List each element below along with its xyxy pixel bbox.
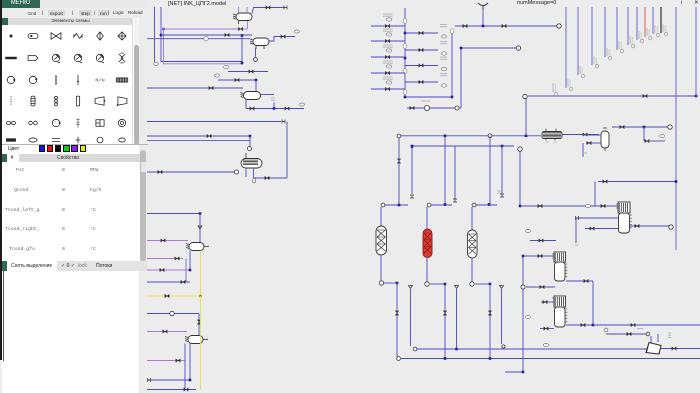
label riser 8 xyxy=(655,25,659,37)
wire drop x456 xyxy=(456,289,458,349)
label riser 0 xyxy=(568,79,572,91)
wire drop x455 xyxy=(454,146,456,199)
label e5a xyxy=(271,98,275,100)
valve V45 xyxy=(631,323,635,327)
node j25 xyxy=(444,283,447,286)
valve VL4 xyxy=(385,87,389,91)
wire blue drops B xyxy=(184,344,186,391)
wire drop x186 xyxy=(185,259,187,283)
valve VL1 xyxy=(385,39,389,43)
wire header y325 xyxy=(593,324,700,326)
wire exch3 stub y329 xyxy=(540,328,554,330)
node j11 xyxy=(451,96,454,99)
drum A xyxy=(186,243,204,251)
valve V23 xyxy=(463,24,467,28)
drum D2 xyxy=(250,38,269,46)
label glyph L0 xyxy=(386,18,392,21)
wire column3 feed xyxy=(476,204,497,206)
valve V37 xyxy=(635,224,639,228)
wire exch2 feed y256 xyxy=(523,255,554,257)
valve V48 xyxy=(603,180,607,184)
wire pump line y108 xyxy=(407,107,461,109)
riser pipe 9 xyxy=(660,7,662,33)
wire vertical x154.5 xyxy=(154,7,156,62)
valve V30 xyxy=(397,159,401,163)
label ladder2 R0 xyxy=(440,25,447,27)
label e15b xyxy=(668,333,671,337)
wire HX1 left line y172 xyxy=(147,171,236,173)
terminal t23 xyxy=(413,347,417,351)
drum D1 xyxy=(233,13,252,21)
wire feed y314 xyxy=(147,313,199,315)
node j1 xyxy=(160,34,163,37)
riser pipe 11 xyxy=(695,7,697,96)
wire drum D1 bottom stub xyxy=(238,21,240,25)
wire drop x593 xyxy=(592,281,594,325)
wire ladder bottom tie xyxy=(405,96,452,98)
valve V22 xyxy=(410,106,414,110)
wire drop x502 xyxy=(501,146,503,194)
column C2 (selected, red) xyxy=(423,229,432,258)
wire column1 bottoms tie xyxy=(384,282,397,284)
valve V29 xyxy=(645,139,649,143)
wire drop to drum A xyxy=(199,214,201,243)
riser pipe 4 xyxy=(616,7,618,50)
wire drop x397 xyxy=(396,283,398,357)
node j19 xyxy=(501,145,504,148)
exchanger HXA xyxy=(616,202,632,233)
valve VR1 xyxy=(419,48,423,52)
wire purple y361 xyxy=(147,360,185,362)
valve V2 xyxy=(225,33,229,37)
wire feed y214 xyxy=(147,213,200,215)
node j31 xyxy=(592,324,595,327)
wire column3 bottoms tie xyxy=(475,283,490,285)
node ladder1 junction xyxy=(404,32,407,35)
wire blue y380 xyxy=(147,379,190,381)
valve V20 xyxy=(176,359,180,363)
node j29 xyxy=(519,205,522,208)
port ellipse L2 top xyxy=(450,29,454,34)
label e15 xyxy=(637,328,643,330)
wire vessel outlet y127 xyxy=(612,126,668,128)
valve V16 xyxy=(181,280,185,284)
node j10 xyxy=(189,379,192,382)
valve V42 xyxy=(543,300,547,304)
valve V41 xyxy=(584,279,588,283)
wire HXA outlet y226 xyxy=(630,225,669,227)
valve V1 xyxy=(238,27,242,31)
wire purple riser x163.5 with corner y63.8 xyxy=(164,29,243,64)
wire drop x410b xyxy=(410,289,412,346)
bus ladder2 xyxy=(451,33,453,97)
wire bottoms header y358 xyxy=(401,358,700,360)
wire ladder1 left stub 0 xyxy=(371,25,405,27)
label e11 xyxy=(575,244,578,246)
terminal t22 xyxy=(470,282,474,286)
terminal t9 xyxy=(523,94,527,98)
vent B2 xyxy=(455,286,459,289)
valve V9 xyxy=(285,107,289,111)
column C1 xyxy=(376,226,387,255)
wire HXB outlet y281 xyxy=(566,280,593,282)
label ladder2 R2 xyxy=(440,57,447,59)
wire column1 feed xyxy=(385,204,408,206)
wire pump riser xyxy=(255,48,257,57)
wire drop x256 to drum D3 xyxy=(255,80,257,91)
wire header y135 xyxy=(399,135,541,137)
vent marker A xyxy=(198,226,202,229)
wire drop x445b xyxy=(444,284,446,358)
label glyph R2 xyxy=(441,67,446,70)
riser pipe 7 xyxy=(644,7,646,37)
wire column2 bottoms tie xyxy=(430,283,445,285)
label e2 xyxy=(295,30,300,33)
terminal t29 xyxy=(502,345,505,348)
node j2b xyxy=(241,34,244,37)
node j3 xyxy=(241,62,244,65)
label e7 xyxy=(660,135,665,138)
valve V28 xyxy=(620,125,624,129)
label riser 4 xyxy=(619,41,623,53)
wire drop x490b xyxy=(489,284,491,358)
terminal t16 xyxy=(500,194,504,197)
node j2 xyxy=(162,28,165,31)
wire header y35 xyxy=(161,34,252,36)
heat exchanger HX1 xyxy=(241,159,262,169)
wire purple stub to drum D1 xyxy=(243,28,248,30)
label riser 9 xyxy=(663,24,667,36)
label riser 7 xyxy=(647,28,651,40)
label ladder1 L0 xyxy=(383,14,393,16)
label glyph L2 xyxy=(386,49,392,52)
exchanger HXB xyxy=(552,252,567,281)
valve VR0 xyxy=(419,31,423,35)
terminal t17 xyxy=(381,203,385,207)
node j27 xyxy=(455,348,458,351)
wire drum D2 bottom stub xyxy=(255,46,257,50)
label riser 1 xyxy=(580,66,584,78)
node j21 xyxy=(675,180,678,183)
node j8 xyxy=(189,269,192,272)
label pump xyxy=(421,100,431,102)
wire stub y146 xyxy=(505,145,514,147)
wire drop x250 xyxy=(249,136,251,146)
wire bottoms header y349 xyxy=(417,348,660,350)
terminal t14 xyxy=(410,195,414,198)
node j14 xyxy=(460,47,463,50)
wire yellow drop A xyxy=(200,251,202,297)
column C3 xyxy=(468,230,478,258)
label e4 xyxy=(224,66,229,69)
wire long header y96 xyxy=(528,95,696,97)
valve V11 xyxy=(158,170,162,174)
node j23 xyxy=(488,203,491,206)
valve V12 xyxy=(265,176,269,180)
port ellipse L1-0 xyxy=(403,19,407,24)
wire drum D3 bottom piping xyxy=(245,100,247,109)
wire feed y136 xyxy=(147,135,250,137)
node j17 xyxy=(525,135,528,138)
valve V33 xyxy=(488,311,492,315)
terminal t21 xyxy=(425,282,429,286)
riser pipe 2 xyxy=(591,7,593,65)
node j16b xyxy=(398,204,401,207)
wire drum D3 outlet y94 xyxy=(261,94,274,96)
label ladder1 L4 xyxy=(383,77,393,79)
wire drum D1 outlet xyxy=(252,8,284,14)
wire ladder1 right stub 3 xyxy=(405,81,438,83)
node j13 xyxy=(482,25,485,28)
wire column2 neck xyxy=(426,207,428,229)
label e9 xyxy=(497,191,501,193)
terminal t12 xyxy=(668,125,672,129)
terminal t18 xyxy=(427,203,431,207)
node j6 xyxy=(249,135,252,138)
label ellipse e0 xyxy=(154,62,158,65)
terminal t7 xyxy=(557,24,561,28)
label ladder1 L3 xyxy=(383,61,393,63)
pump P3 xyxy=(424,105,429,110)
terminal t24 xyxy=(397,357,401,361)
label glyph L4 xyxy=(386,81,392,84)
node j28 xyxy=(444,357,447,360)
wire purple drop drum D1 bottom xyxy=(247,21,249,29)
valve V18 xyxy=(197,320,201,324)
node j18 xyxy=(411,145,414,148)
terminal t25 xyxy=(518,147,522,151)
valve V13 xyxy=(161,239,165,243)
node j22 xyxy=(444,203,447,206)
valve VL2 xyxy=(385,55,389,59)
wire drop x412 xyxy=(411,147,413,195)
wire riser x287 xyxy=(286,122,288,179)
valve V5 xyxy=(249,70,253,74)
wire purple header y29 xyxy=(164,28,239,30)
wire hopper outlet y349 xyxy=(661,348,700,350)
wire blue y282 xyxy=(147,281,190,283)
wire hopper feeds xyxy=(650,336,652,343)
vent B1 xyxy=(409,286,413,289)
wire drop x576 xyxy=(575,218,577,243)
wire column3 bottoms xyxy=(471,258,473,282)
label glyph R0 xyxy=(441,35,446,38)
riser pipe 8 xyxy=(652,7,654,34)
node ladder1 junction xyxy=(404,57,407,60)
node j4 xyxy=(255,79,258,82)
wire drop x274 xyxy=(273,103,275,109)
label e16 xyxy=(544,344,549,347)
wire stub x583 xyxy=(582,143,584,157)
valve V21 xyxy=(184,388,188,392)
label riser 5 xyxy=(630,36,634,48)
valve VL0 xyxy=(385,24,389,28)
bus ladder1 xyxy=(404,8,406,97)
valve V4 xyxy=(281,35,285,39)
wire exch2 lower stub y287 xyxy=(526,286,555,288)
wire column3 neck xyxy=(471,207,473,230)
wire ladder1 left stub 1 xyxy=(371,40,405,42)
wire purple y332 xyxy=(147,331,187,333)
valve V32 xyxy=(443,311,447,315)
wire column2 bottoms xyxy=(426,258,428,283)
label glyph L1 xyxy=(386,33,392,36)
node j20 xyxy=(643,126,646,129)
wire HX1 drain y178 xyxy=(254,177,288,179)
valve V47 xyxy=(672,347,676,351)
wire exch3 stub y302 xyxy=(541,301,554,303)
label e10 xyxy=(586,205,591,208)
port ellipse L1-1 xyxy=(403,44,407,49)
node j9 xyxy=(199,295,202,298)
wire yellow y296 xyxy=(147,295,201,297)
wire drop to drum B xyxy=(198,314,200,336)
label e14 xyxy=(604,328,608,332)
wire drop x490 xyxy=(489,136,491,204)
wire header y206 xyxy=(520,205,618,207)
pump P1 xyxy=(254,58,258,62)
label riser 6 xyxy=(639,31,643,43)
terminal t15 xyxy=(453,199,457,202)
wire rail x523 xyxy=(522,256,524,372)
riser pipe 5 xyxy=(627,7,629,45)
valve V25 xyxy=(643,94,647,98)
terminal t3 xyxy=(248,147,252,151)
wire column1 neck xyxy=(380,207,382,226)
wire HX1 bottom stubs xyxy=(245,168,247,177)
terminal t10 xyxy=(397,134,401,138)
node j26 xyxy=(489,283,492,286)
node j5 xyxy=(273,107,276,110)
node j12 xyxy=(404,96,407,99)
wire header y182 xyxy=(598,181,676,183)
node j18b xyxy=(411,145,414,148)
wire HXC outlet y325 xyxy=(566,324,593,326)
wire column1 bottoms xyxy=(380,255,382,281)
wire HX1 top stub xyxy=(245,153,247,158)
terminal t27 xyxy=(669,225,673,229)
label glyph L3 xyxy=(386,65,392,68)
wire drop x501 xyxy=(501,289,503,344)
wire ladder1 left stub 4 xyxy=(371,88,405,90)
wire yellow drop B xyxy=(200,296,202,390)
label e6 xyxy=(252,178,255,183)
wire drum D2 outlet right xyxy=(269,37,295,42)
wire drop x644 xyxy=(643,127,645,141)
wire vertical x161 with corner to y61.5 xyxy=(161,7,242,62)
wire blue y390 xyxy=(147,389,196,391)
wire blue drop A xyxy=(189,251,191,271)
wire ladder1 left stub 2 xyxy=(371,56,405,58)
label e12 xyxy=(526,230,531,233)
valve V24 xyxy=(502,24,506,28)
wire purple y270 xyxy=(147,269,190,271)
wire stub y72 xyxy=(228,71,268,73)
wire drum B outlet xyxy=(203,339,208,341)
terminal t4 xyxy=(235,170,239,174)
wire vessel left stubs xyxy=(583,134,601,136)
wire long line y122 xyxy=(147,121,281,123)
wire header y38.7 xyxy=(147,38,250,40)
pump P4 xyxy=(521,285,525,289)
label cascade base xyxy=(553,83,557,96)
wire feed y88 to drum D3 xyxy=(147,87,243,89)
wire header y26 xyxy=(455,25,558,27)
vent B3 xyxy=(500,286,504,289)
wire drop x445 xyxy=(444,136,446,204)
node j30 xyxy=(522,255,525,258)
terminal t0 xyxy=(284,6,287,10)
wire HXA left stub y218 xyxy=(576,217,618,219)
hopper H1 xyxy=(646,343,661,355)
label ladder2 R3 xyxy=(440,74,447,76)
wire drum A outlet xyxy=(204,246,209,248)
label ladder1 L1 xyxy=(383,29,393,31)
wire ladder1 right stub 2 xyxy=(405,65,438,67)
node j15 xyxy=(695,95,698,98)
riser pipe 3 xyxy=(604,7,606,57)
terminal t11 xyxy=(488,134,492,138)
terminal t8 xyxy=(516,46,520,50)
wire ladder1 left stub 3 xyxy=(371,72,405,74)
label e13 xyxy=(526,316,531,319)
label ladder2 R1 xyxy=(440,42,447,44)
wire purple y259 xyxy=(147,258,183,260)
valve V26 xyxy=(583,133,587,137)
vessel VS1 xyxy=(601,128,609,151)
label ladder1 L2 xyxy=(383,45,393,47)
valve V19 xyxy=(163,330,167,334)
wire drop x461 xyxy=(460,48,462,108)
label e5 xyxy=(300,103,305,106)
riser pipe 10 xyxy=(675,7,677,250)
valve V27 xyxy=(587,141,591,145)
wire ladder1 right stub 1 xyxy=(405,49,438,51)
valve V8 xyxy=(250,107,254,111)
pump P2 xyxy=(170,311,174,315)
wire HX2 to vessel xyxy=(562,134,599,136)
valve V38 xyxy=(538,254,542,258)
label e8 xyxy=(584,152,587,154)
wire stub y80 xyxy=(218,79,256,81)
valve V39 xyxy=(539,239,543,243)
wire ladder1 right stub 0 xyxy=(405,32,438,34)
valve V43 xyxy=(544,327,548,331)
terminal t2 xyxy=(282,120,285,124)
wire riser x526 xyxy=(525,99,527,136)
valve V40 xyxy=(540,285,544,289)
valve V6 xyxy=(235,78,239,82)
terminal t6 xyxy=(455,106,459,110)
valve V15 xyxy=(160,268,164,272)
heat exchanger HX2 xyxy=(542,132,562,141)
wire purple y241 xyxy=(147,240,188,242)
drum D3 xyxy=(241,92,261,100)
node j32 xyxy=(522,371,525,374)
wire header y146 xyxy=(412,145,514,147)
terminal t5 xyxy=(148,378,151,382)
terminal t19 xyxy=(472,203,476,207)
port ellipse L1-3 xyxy=(403,90,407,95)
valve V3 xyxy=(266,6,270,10)
wire purple stubs drum D1 top xyxy=(238,7,240,13)
label e1 xyxy=(204,37,208,41)
label riser 3 xyxy=(607,48,611,60)
node j24 xyxy=(396,282,399,285)
terminal t28 xyxy=(646,332,650,336)
valve VR2 xyxy=(419,64,423,68)
terminal t26 xyxy=(576,216,579,220)
